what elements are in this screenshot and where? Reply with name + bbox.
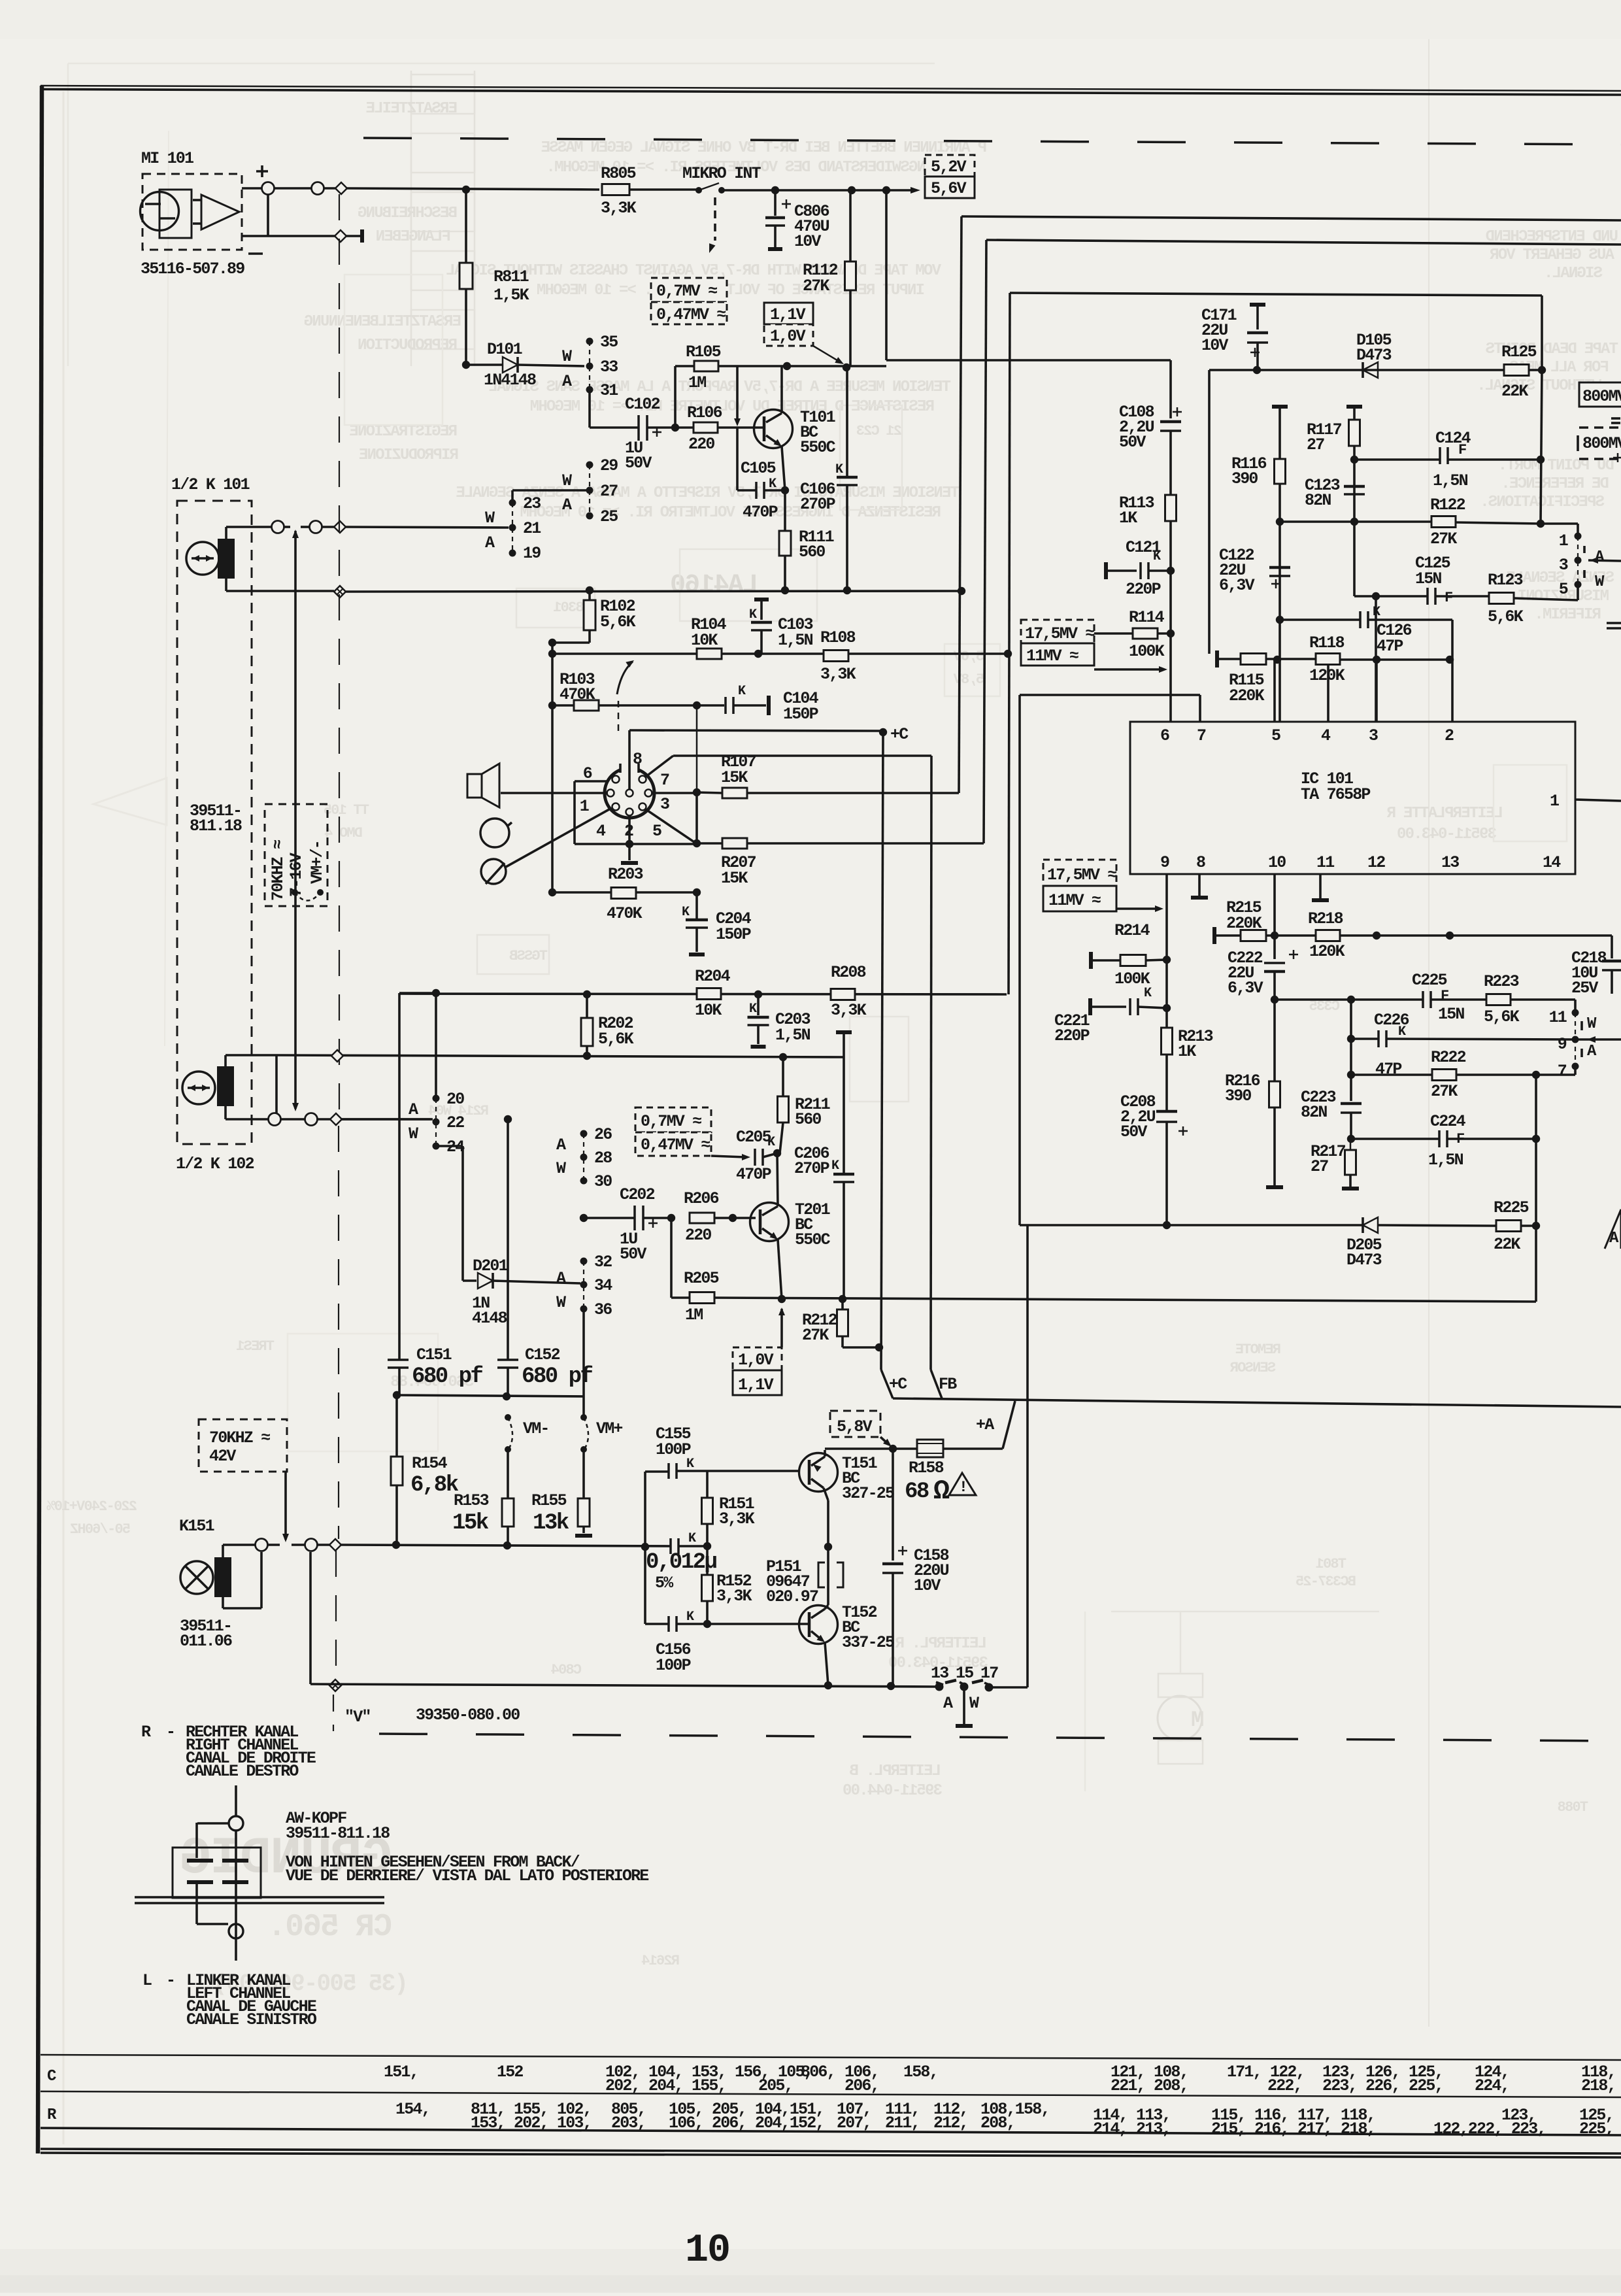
svg-text:CR 560.: CR 560. [269, 1910, 392, 1945]
svg-text:VM-: VM- [523, 1419, 549, 1438]
svg-text:220P: 220P [1054, 1026, 1090, 1045]
svg-text:-: - [166, 1723, 175, 1742]
svg-text:13: 13 [931, 1664, 948, 1683]
svg-text:+A: +A [976, 1415, 994, 1434]
svg-text:F: F [1445, 590, 1452, 606]
svg-text:RESISTANCE D ENTREE DU VOLTMET: RESISTANCE D ENTREE DU VOLTMETRE RI. >= … [530, 398, 935, 416]
svg-text:15: 15 [956, 1664, 973, 1683]
svg-text:TGSSB: TGSSB [509, 948, 548, 964]
svg-text:C226: C226 [1374, 1011, 1409, 1030]
svg-text:154,: 154, [395, 2100, 430, 2119]
svg-text:2: 2 [624, 822, 633, 841]
svg-text:R122: R122 [1430, 496, 1465, 515]
svg-text:A: A [556, 1136, 566, 1155]
svg-text:R225: R225 [1494, 1198, 1529, 1217]
svg-text:TRES1: TRES1 [236, 1338, 275, 1355]
svg-text:K151: K151 [179, 1517, 214, 1536]
svg-text:150P: 150P [783, 705, 818, 724]
svg-text:27K: 27K [803, 277, 829, 295]
svg-text:LEITERPLATTE R: LEITERPLATTE R [1386, 805, 1503, 822]
svg-text:REMOTE: REMOTE [1235, 1342, 1281, 1358]
svg-text:39350-080.00: 39350-080.00 [416, 1706, 520, 1725]
svg-text:C152: C152 [525, 1345, 560, 1364]
svg-text:W: W [556, 1159, 566, 1178]
svg-text:220-240V+10%: 220-240V+10% [46, 1498, 137, 1515]
svg-text:7: 7 [1197, 726, 1206, 745]
svg-text:214, 213,: 214, 213, [1093, 2119, 1171, 2138]
svg-text:1M: 1M [685, 1306, 703, 1325]
svg-text:470P: 470P [736, 1165, 771, 1184]
svg-text:15k: 15k [452, 1511, 489, 1536]
svg-text:C102: C102 [625, 395, 660, 414]
svg-text:82N: 82N [1301, 1103, 1327, 1122]
svg-text:3,3K: 3,3K [831, 1001, 867, 1020]
svg-text:TA 7658P: TA 7658P [1301, 785, 1370, 804]
svg-text:806,: 806, [801, 2063, 835, 2082]
svg-text:A: A [409, 1100, 418, 1119]
svg-text:R2614: R2614 [641, 1953, 680, 1969]
svg-text:0,47MV ≈: 0,47MV ≈ [641, 1136, 710, 1155]
svg-text:19: 19 [523, 544, 541, 563]
svg-text:VM+/-: VM+/- [308, 841, 327, 884]
svg-text:50V: 50V [620, 1245, 646, 1264]
svg-text:2: 2 [1445, 726, 1454, 745]
svg-text:11: 11 [1316, 853, 1334, 872]
svg-text:220K: 220K [1229, 686, 1265, 705]
svg-text:R805: R805 [601, 164, 636, 183]
svg-text:R154: R154 [412, 1454, 448, 1473]
svg-text:20: 20 [446, 1090, 464, 1109]
svg-text:15K: 15K [721, 768, 748, 787]
svg-text:R114: R114 [1129, 608, 1165, 627]
svg-text:560: 560 [795, 1110, 821, 1129]
svg-text:LA4160: LA4160 [671, 571, 758, 600]
svg-text:27K: 27K [1430, 530, 1457, 549]
svg-text:28: 28 [594, 1149, 612, 1168]
svg-text:5,6V: 5,6V [953, 649, 984, 665]
svg-text:3,3K: 3,3K [719, 1510, 755, 1528]
svg-text:1,5N: 1,5N [775, 1026, 811, 1045]
svg-text:C124: C124 [1435, 429, 1471, 448]
svg-text:9: 9 [1160, 853, 1169, 872]
svg-text:A: A [485, 533, 495, 552]
svg-text:12: 12 [1367, 853, 1385, 872]
svg-text:10V: 10V [914, 1576, 941, 1595]
svg-text:27K: 27K [1431, 1082, 1458, 1101]
svg-text:K: K [749, 1002, 757, 1017]
svg-text:ERSATZTEILBENENNUNG: ERSATZTEILBENENNUNG [304, 313, 461, 331]
svg-text:222,: 222, [1267, 2076, 1302, 2095]
svg-text:47P: 47P [1377, 637, 1403, 656]
svg-text:560: 560 [799, 543, 825, 562]
svg-text:R: R [141, 1723, 151, 1742]
svg-text:K: K [1373, 605, 1380, 620]
svg-text:C105: C105 [741, 459, 776, 478]
svg-text:INPUT RESISTANCE OF VOLTMETERS: INPUT RESISTANCE OF VOLTMETERS RI. >= 10… [537, 282, 925, 299]
svg-text:K: K [682, 905, 690, 920]
svg-text:1,1V: 1,1V [738, 1376, 774, 1394]
svg-text:1: 1 [1559, 532, 1568, 550]
svg-text:202, 204, 155,: 202, 204, 155, [605, 2076, 726, 2095]
svg-text:D101: D101 [487, 340, 522, 359]
svg-text:K: K [686, 1610, 694, 1625]
svg-text:AUS GEHAERT VOR: AUS GEHAERT VOR [1490, 246, 1614, 264]
svg-text:VM+: VM+ [596, 1419, 622, 1438]
svg-text:100P: 100P [656, 1440, 691, 1459]
svg-text:150P: 150P [716, 925, 751, 944]
svg-text:9: 9 [1558, 1035, 1567, 1054]
svg-text:4: 4 [596, 822, 606, 841]
svg-text:5%: 5% [655, 1574, 674, 1593]
svg-text:5,2V: 5,2V [931, 158, 967, 177]
svg-text:27: 27 [600, 482, 618, 501]
svg-text:39511-044.00: 39511-044.00 [843, 1782, 943, 1800]
svg-text:R208: R208 [831, 963, 866, 982]
svg-text:10: 10 [1268, 853, 1286, 872]
svg-text:A: A [556, 1269, 566, 1288]
svg-text:120K: 120K [1309, 942, 1345, 961]
svg-text:R214: R214 [1114, 921, 1150, 940]
svg-text:470P: 470P [743, 503, 778, 522]
svg-text:K: K [1144, 986, 1152, 1001]
svg-text:3: 3 [1559, 556, 1568, 575]
svg-text:5,6V: 5,6V [931, 179, 967, 198]
svg-text:39511-811.18: 39511-811.18 [286, 1824, 390, 1843]
svg-text:211,: 211, [885, 2114, 920, 2133]
svg-text:153, 202, 103,: 153, 202, 103, [471, 2114, 592, 2133]
svg-text:R118: R118 [1309, 633, 1345, 652]
svg-text:225, 2: 225, 2 [1579, 2119, 1621, 2138]
svg-text:1,0V: 1,0V [770, 327, 806, 346]
svg-text:D473: D473 [1346, 1251, 1382, 1270]
svg-text:RESISTENZA D INGRESSO AI VOLTM: RESISTENZA D INGRESSO AI VOLTMETRO RI. >… [520, 504, 941, 522]
svg-text:K: K [749, 607, 757, 622]
svg-text:1: 1 [580, 797, 589, 816]
svg-text:R205: R205 [684, 1269, 719, 1288]
svg-text:ERSATZTEILE: ERSATZTEILE [366, 100, 458, 118]
svg-text:0,47MV ≈: 0,47MV ≈ [656, 305, 726, 324]
svg-text:11MV ≈: 11MV ≈ [1026, 647, 1078, 666]
svg-text:205,: 205, [758, 2076, 793, 2095]
svg-text:207,: 207, [837, 2114, 871, 2133]
svg-text:17,5MV ≈: 17,5MV ≈ [1025, 624, 1094, 643]
svg-text:-: - [166, 1971, 175, 1990]
svg-text:C202: C202 [620, 1185, 655, 1204]
svg-text:23: 23 [523, 494, 541, 513]
svg-text:208,: 208, [980, 2114, 1015, 2133]
svg-text:10V: 10V [1201, 336, 1228, 355]
svg-text:220: 220 [685, 1226, 711, 1245]
svg-text:42V: 42V [209, 1447, 236, 1466]
svg-text:34: 34 [594, 1276, 612, 1295]
svg-text:1: 1 [1550, 792, 1559, 811]
svg-text:Ω: Ω [933, 1476, 950, 1507]
svg-text:151,: 151, [384, 2063, 418, 2082]
svg-text:7: 7 [1558, 1062, 1567, 1081]
svg-text:A: A [562, 372, 572, 391]
svg-text:10K: 10K [691, 631, 718, 650]
svg-text:5: 5 [1271, 726, 1280, 745]
svg-text:327-25: 327-25 [842, 1484, 894, 1503]
svg-text:27K: 27K [802, 1326, 829, 1345]
svg-text:ʺVʺ: ʺVʺ [344, 1708, 371, 1727]
svg-text:6,3V: 6,3V [1228, 979, 1263, 998]
svg-text:39511-043.00: 39511-043.00 [1397, 826, 1497, 843]
svg-text:152: 152 [497, 2063, 523, 2082]
svg-text:5,6K: 5,6K [1484, 1007, 1520, 1026]
svg-text:212,: 212, [933, 2114, 968, 2133]
svg-text:50V: 50V [1119, 433, 1146, 452]
svg-text:5,6K: 5,6K [1488, 607, 1524, 626]
svg-text:15N: 15N [1415, 569, 1441, 588]
svg-text:221, 208,: 221, 208, [1111, 2076, 1188, 2095]
svg-text:215, 216, 217, 218,: 215, 216, 217, 218, [1211, 2119, 1375, 2138]
svg-text:1/2 K 102: 1/2 K 102 [176, 1155, 254, 1173]
svg-text:218,: 218, [1581, 2076, 1616, 2095]
svg-text:30: 30 [594, 1172, 612, 1191]
svg-text:W: W [562, 471, 572, 490]
svg-text:17,5MV ≈: 17,5MV ≈ [1047, 866, 1116, 885]
svg-text:3: 3 [1369, 726, 1378, 745]
svg-text:SENSOR: SENSOR [1229, 1360, 1276, 1376]
svg-text:BESCHREIBUNG: BESCHREIBUNG [358, 205, 458, 222]
svg-text:R125: R125 [1501, 343, 1537, 362]
svg-text:224,: 224, [1475, 2076, 1509, 2095]
svg-text:CANALE SINISTRO: CANALE SINISTRO [186, 2010, 317, 2029]
svg-text:1,0V: 1,0V [738, 1351, 774, 1370]
svg-text:223, 226, 225,: 223, 226, 225, [1322, 2076, 1443, 2095]
svg-text:1N4148: 1N4148 [484, 371, 536, 390]
svg-text:5: 5 [652, 822, 661, 841]
svg-text:LEITERPL. B: LEITERPL. B [850, 1763, 941, 1780]
svg-text:33: 33 [600, 358, 618, 377]
svg-text:K: K [831, 1158, 839, 1173]
svg-text:0,7MV ≈: 0,7MV ≈ [641, 1112, 701, 1131]
svg-text:27: 27 [1311, 1157, 1328, 1176]
svg-text:10K: 10K [695, 1001, 722, 1020]
svg-text:70KHZ ≈: 70KHZ ≈ [209, 1428, 270, 1447]
svg-text:020.97: 020.97 [766, 1587, 818, 1606]
svg-text:11: 11 [1549, 1008, 1567, 1027]
svg-text:1M: 1M [688, 373, 706, 392]
svg-text:FLANGEBEN: FLANGEBEN [376, 228, 451, 246]
svg-text:10V: 10V [794, 232, 821, 251]
svg-text:R158: R158 [909, 1459, 944, 1477]
svg-text:3: 3 [660, 795, 669, 814]
svg-text:1,5K: 1,5K [493, 286, 529, 305]
svg-text:MI 101: MI 101 [141, 149, 193, 168]
svg-text:DMO 4: DMO 4 [324, 825, 363, 841]
svg-text:L: L [142, 1971, 152, 1990]
svg-text:C225: C225 [1412, 971, 1447, 990]
svg-text:470K: 470K [607, 904, 643, 923]
svg-text:8: 8 [633, 750, 642, 769]
svg-text:680 pf: 680 pf [412, 1364, 483, 1389]
svg-text:680 pf: 680 pf [522, 1364, 593, 1389]
svg-text:26: 26 [594, 1125, 612, 1144]
svg-text:220P: 220P [1126, 580, 1161, 599]
svg-text:D473: D473 [1356, 346, 1392, 365]
svg-text:C205: C205 [736, 1128, 771, 1147]
svg-text:K: K [688, 1531, 696, 1546]
svg-text:5,6K: 5,6K [600, 613, 636, 632]
svg-text:6: 6 [583, 764, 592, 783]
svg-text:68: 68 [905, 1479, 929, 1504]
svg-text:C: C [47, 2068, 56, 2085]
svg-text:550C: 550C [795, 1230, 831, 1249]
svg-text:M: M [1191, 1708, 1203, 1733]
svg-text:550C: 550C [800, 438, 836, 457]
svg-text:A: A [562, 496, 572, 515]
svg-text:50V: 50V [1120, 1123, 1147, 1141]
svg-text:R218: R218 [1308, 909, 1343, 928]
svg-text:1/2 K 101: 1/2 K 101 [171, 475, 250, 494]
svg-text:4148: 4148 [472, 1309, 507, 1328]
svg-text:10: 10 [685, 2229, 729, 2273]
svg-text:K: K [1153, 549, 1161, 564]
svg-text:1K: 1K [1178, 1042, 1196, 1061]
svg-text:TT 105: TT 105 [324, 802, 369, 819]
svg-text:5,8V: 5,8V [837, 1417, 873, 1436]
svg-text:4: 4 [1321, 726, 1331, 745]
svg-text:100K: 100K [1129, 642, 1165, 661]
svg-text:13: 13 [1441, 853, 1459, 872]
svg-text:W: W [485, 509, 495, 528]
svg-text:A: A [943, 1694, 953, 1713]
svg-text:15K: 15K [721, 869, 748, 888]
svg-text:17: 17 [980, 1664, 998, 1683]
svg-text:6,3V: 6,3V [1219, 576, 1255, 595]
svg-text:R105: R105 [686, 343, 721, 362]
svg-text:DE REFERENCE.: DE REFERENCE. [1502, 475, 1609, 493]
svg-text:3,3K: 3,3K [820, 665, 856, 684]
svg-text:800MV: 800MV [1582, 387, 1621, 406]
svg-text:270P: 270P [794, 1159, 829, 1178]
svg-text:0,7MV ≈: 0,7MV ≈ [656, 282, 717, 301]
svg-text:!: ! [959, 1479, 967, 1496]
svg-text:158,: 158, [903, 2063, 938, 2082]
svg-text:K: K [738, 684, 746, 699]
svg-text:25V: 25V [1571, 979, 1598, 998]
svg-text:R108: R108 [820, 628, 856, 647]
svg-text:R106: R106 [687, 403, 722, 422]
svg-text:11MV ≈: 11MV ≈ [1048, 891, 1101, 910]
svg-text:337-25: 337-25 [842, 1633, 894, 1652]
svg-text:CANALE DESTRO: CANALE DESTRO [186, 1762, 299, 1781]
svg-text:390: 390 [1231, 469, 1258, 488]
svg-text:1,5N: 1,5N [1433, 471, 1468, 490]
svg-text:C224: C224 [1430, 1112, 1466, 1131]
svg-text:R123: R123 [1488, 571, 1523, 590]
svg-text:F: F [1441, 988, 1448, 1004]
svg-text:14: 14 [1543, 853, 1561, 872]
svg-text:35116-507.89: 35116-507.89 [141, 260, 244, 279]
svg-text:R155: R155 [531, 1491, 567, 1510]
svg-text:011.06: 011.06 [180, 1632, 232, 1651]
svg-text:LEITERPL. R: LEITERPL. R [895, 1635, 987, 1653]
svg-text:1,1V: 1,1V [770, 305, 806, 324]
svg-text:RIFERIM.: RIFERIM. [1535, 606, 1601, 624]
svg-text:106, 206, 204,152,: 106, 206, 204,152, [669, 2114, 824, 2133]
svg-text:W: W [556, 1293, 566, 1312]
svg-text:811.18: 811.18 [190, 817, 242, 836]
svg-text:R206: R206 [684, 1189, 719, 1208]
svg-text:W: W [409, 1124, 418, 1143]
svg-text:T801: T801 [1316, 1556, 1346, 1572]
svg-text:123,: 123, [1501, 2106, 1536, 2125]
svg-text:29: 29 [600, 456, 618, 475]
svg-text:W: W [969, 1694, 979, 1713]
svg-text:390: 390 [1225, 1087, 1251, 1106]
svg-text:70KHZ ≈: 70KHZ ≈ [269, 840, 288, 901]
svg-text:13k: 13k [533, 1511, 569, 1536]
svg-text:T088: T088 [1558, 1799, 1588, 1815]
svg-text:7: 7 [660, 771, 669, 790]
svg-text:5,8V: 5,8V [953, 671, 984, 688]
svg-text:W: W [562, 347, 572, 366]
svg-text:MIKRO INT: MIKRO INT [682, 164, 761, 183]
svg-text:100P: 100P [656, 1656, 691, 1675]
svg-text:R223: R223 [1484, 972, 1519, 991]
svg-text:50V: 50V [625, 454, 652, 473]
svg-text:+C: +C [889, 1375, 907, 1394]
svg-text:P ANRINNEN BRETTEN BEI DR-T BV: P ANRINNEN BRETTEN BEI DR-T BV OHNE SIGN… [541, 139, 987, 157]
svg-text:22K: 22K [1494, 1235, 1520, 1254]
svg-text:220: 220 [688, 435, 714, 454]
svg-text:C151: C151 [416, 1345, 452, 1364]
svg-text:5,6K: 5,6K [598, 1030, 634, 1049]
svg-text:SPECIFICATIONS.: SPECIFICATIONS. [1481, 494, 1605, 511]
svg-text:36: 36 [594, 1300, 612, 1319]
svg-text:K: K [835, 462, 843, 477]
svg-text:21 C23: 21 C23 [856, 423, 902, 439]
svg-text:32: 32 [594, 1253, 612, 1272]
svg-text:R153: R153 [454, 1491, 489, 1510]
svg-text:27: 27 [1307, 435, 1324, 454]
svg-text:82N: 82N [1305, 491, 1331, 510]
svg-text:35: 35 [600, 333, 618, 352]
svg-text:R203: R203 [608, 865, 643, 884]
svg-text:R811: R811 [493, 267, 529, 286]
svg-text:+C: +C [890, 725, 909, 744]
svg-text:8: 8 [1196, 853, 1205, 872]
svg-text:TENSION MESUREE A DR-7,5V RAPP: TENSION MESUREE A DR-7,5V RAPPORT A LA M… [489, 379, 951, 396]
svg-text:3,3K: 3,3K [601, 199, 637, 218]
svg-text:203,: 203, [611, 2114, 646, 2133]
svg-text:FB: FB [939, 1375, 957, 1394]
svg-text:1K: 1K [1119, 509, 1137, 528]
svg-text:270P: 270P [800, 495, 835, 514]
svg-text:3,3K: 3,3K [716, 1587, 752, 1606]
svg-text:VUE DE DERRIERE/ VISTA DAL LAT: VUE DE DERRIERE/ VISTA DAL LATO POSTERIO… [286, 1866, 648, 1885]
svg-text:50-/60HZ: 50-/60HZ [70, 1521, 131, 1538]
svg-text:BC337-25: BC337-25 [1295, 1574, 1356, 1590]
svg-text:6,8k: 6,8k [410, 1473, 459, 1498]
svg-text:206,: 206, [844, 2076, 879, 2095]
svg-text:SIGNAL.: SIGNAL. [1545, 265, 1603, 282]
svg-text:25: 25 [600, 507, 618, 526]
svg-text:R222: R222 [1431, 1048, 1466, 1067]
svg-text:1,5N: 1,5N [1428, 1151, 1463, 1170]
svg-text:5: 5 [1559, 580, 1568, 599]
svg-text:31: 31 [600, 381, 618, 400]
svg-text:15N: 15N [1438, 1005, 1464, 1024]
svg-text:R204: R204 [695, 967, 731, 986]
svg-text:22K: 22K [1501, 382, 1528, 401]
svg-text:C804: C804 [551, 1662, 582, 1678]
svg-text:1,5N: 1,5N [778, 631, 813, 650]
svg-text:22: 22 [446, 1113, 464, 1132]
